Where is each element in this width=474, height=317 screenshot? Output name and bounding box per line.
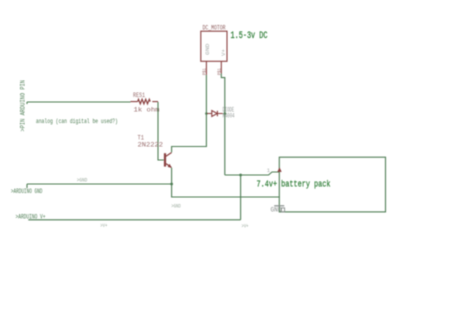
svg-text:>GND: >GND (171, 203, 181, 210)
net label PIN (vertical) (20, 80, 27, 132)
motor pin label P$1 right (217, 68, 223, 75)
battery B1 box (279, 157, 385, 212)
motor pin name V+ (220, 48, 227, 56)
transistor Q1 emitter lead (166, 164, 172, 168)
annotation 1.5-3v DC (231, 31, 268, 42)
svg-text:analog (can digital be used?): analog (can digital be used?) (36, 118, 118, 125)
svg-text:>ARDUINO GND: >ARDUINO GND (11, 188, 43, 195)
net label GND flag mid (171, 203, 181, 210)
transistor Q1 base bar (164, 153, 166, 166)
svg-text:>PIN ARDUINO PIN: >PIN ARDUINO PIN (20, 80, 27, 132)
svg-text:N4004: N4004 (223, 112, 235, 119)
transistor Q1 collector lead (166, 153, 172, 157)
battery plus pin marker (277, 167, 281, 172)
svg-text:>GND: >GND (77, 177, 88, 184)
wire vplus branch (240, 175, 242, 220)
svg-text:P$1: P$1 (217, 68, 223, 75)
svg-text:>V+: >V+ (100, 222, 107, 229)
svg-text:DC_MOTOR: DC_MOTOR (203, 25, 226, 32)
net label ARDUINO V+ (16, 213, 46, 220)
svg-text:1k ohm: 1k ohm (134, 107, 160, 114)
net label V+ flag mid (242, 223, 249, 230)
wire vplus rail to battery (225, 172, 280, 175)
diode D1 junction right (224, 112, 227, 115)
diode D1 junction left (205, 112, 208, 115)
svg-text:P$1: P$1 (202, 68, 208, 75)
svg-text:7.4v+ battery pack: 7.4v+ battery pack (257, 178, 331, 189)
net label GND flag left (77, 177, 88, 184)
label analog note (36, 118, 118, 125)
label RES1 (133, 92, 145, 99)
motor right pin lead (220, 61, 222, 73)
wire arduino-vplus (28, 219, 240, 221)
motor pin label P$1 left (202, 68, 208, 75)
wire emitter to gnd (172, 168, 280, 197)
wire collector-net (172, 75, 207, 152)
wire base-net (158, 102, 164, 160)
wire motor right pin net (221, 74, 225, 176)
label T1 (138, 135, 145, 142)
svg-text:GND: GND (271, 207, 282, 214)
motor pin name GND (204, 43, 211, 55)
ground symbol label GND (271, 207, 285, 214)
motor M1 box (201, 31, 227, 61)
junction vplus (239, 174, 242, 177)
label DC_MOTOR (203, 25, 226, 32)
annotation 7.4v+ battery pack (257, 178, 331, 189)
svg-text:RES1: RES1 (133, 92, 145, 99)
junction emitter/gnd (170, 183, 173, 186)
label 2N2222 (138, 141, 164, 148)
ground symbol bar (274, 205, 284, 207)
resistor R1 zigzag (138, 99, 151, 104)
svg-text:>V+: >V+ (242, 223, 249, 230)
svg-text:V+: V+ (220, 48, 227, 56)
net label ARDUINO GND (11, 188, 43, 195)
wire arduino-gnd (27, 184, 172, 188)
battery pin number 1 (267, 167, 271, 174)
diode D1 (207, 111, 223, 117)
svg-text:GND: GND (204, 43, 211, 55)
label N4004 (223, 112, 235, 119)
wire pin-net horizontal (27, 102, 131, 104)
svg-text:>ARDUINO V+: >ARDUINO V+ (16, 213, 46, 220)
svg-text:1.5-3v DC: 1.5-3v DC (231, 31, 268, 42)
svg-text:2N2222: 2N2222 (138, 141, 164, 148)
net label V+ flag left (100, 222, 107, 229)
resistor R1 leads (131, 101, 159, 103)
label DIODE (223, 107, 235, 114)
label 1k ohm (134, 107, 160, 114)
motor left pin lead (205, 61, 207, 75)
